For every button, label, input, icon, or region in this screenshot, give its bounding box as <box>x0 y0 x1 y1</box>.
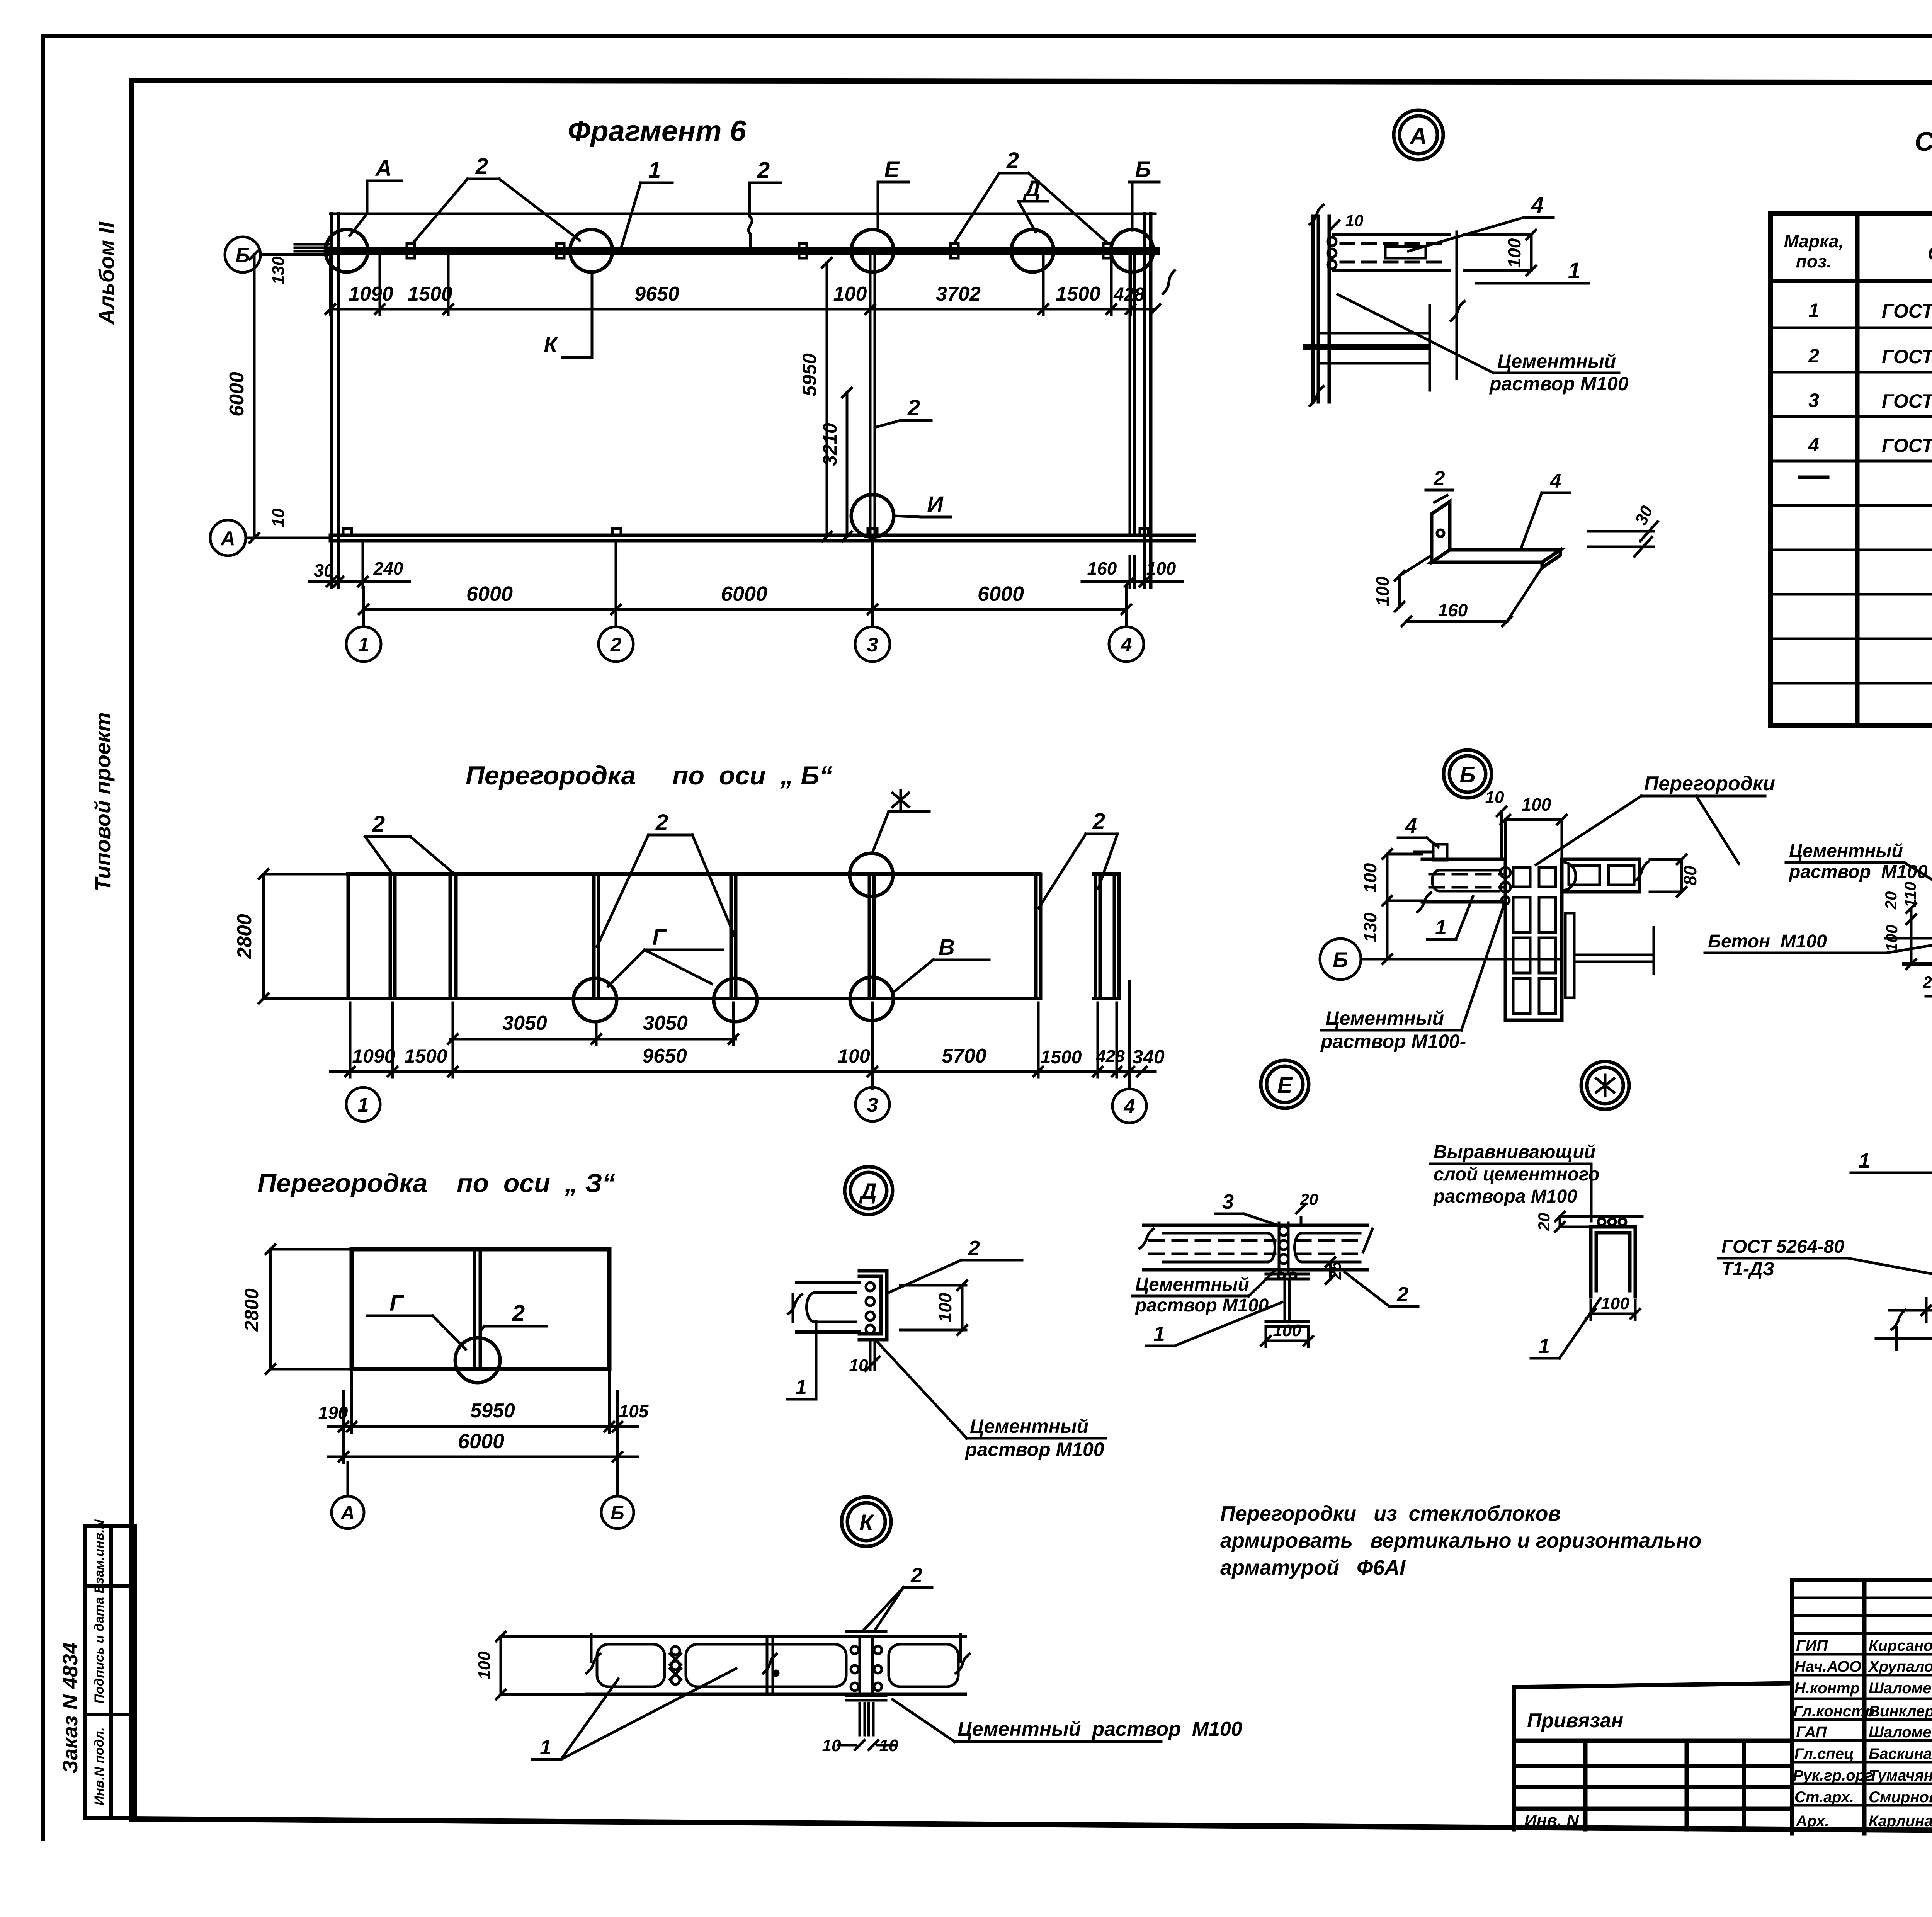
node B title circle <box>1444 750 1492 798</box>
plan right end wall <box>1145 214 1151 587</box>
svg-text:Бетон М100: Бетон М100 <box>1708 931 1827 952</box>
svg-text:25: 25 <box>1326 1261 1344 1280</box>
svg-text:Е: Е <box>884 157 900 182</box>
node K panel break <box>763 1636 778 1694</box>
partition Z callout circle <box>455 1338 500 1383</box>
svg-text:Б: Б <box>611 1502 624 1524</box>
svg-text:100: 100 <box>1522 794 1551 815</box>
elevation band top line <box>348 872 1119 876</box>
plan axis circle 1 <box>346 627 381 662</box>
node E T-joint mortar <box>1279 1223 1288 1272</box>
svg-text:армировать вертикально и гор: армировать вертикально и горизонтально <box>1220 1529 1701 1552</box>
node B left partition dashes <box>1430 874 1503 887</box>
node K I-beam mortar <box>851 1646 882 1691</box>
svg-text:20: 20 <box>1535 1213 1553 1232</box>
svg-text:арматурой Ф6АI: арматурой Ф6АI <box>1220 1556 1406 1579</box>
plan axis А circle <box>210 520 330 556</box>
svg-text:1: 1 <box>648 158 661 183</box>
node E cell dashes <box>1150 1240 1364 1254</box>
svg-text:1500: 1500 <box>404 1045 447 1067</box>
svg-text:10: 10 <box>1485 788 1504 807</box>
svg-text:2800: 2800 <box>241 1288 262 1332</box>
node E dim 100 under beam <box>1261 1329 1313 1347</box>
svg-text:Марка,: Марка, <box>1784 231 1844 251</box>
elevation axis circle 1 <box>346 1087 380 1121</box>
node D channel <box>859 1271 887 1340</box>
svg-text:6000: 6000 <box>721 582 767 606</box>
signature table grid <box>1792 1580 1932 1834</box>
elevation callout circle Г second <box>714 978 757 1022</box>
node I dim lines below <box>1876 1298 1932 1350</box>
svg-text:Е: Е <box>1277 1073 1293 1098</box>
svg-text:К: К <box>859 1510 874 1535</box>
svg-text:2: 2 <box>910 1564 922 1587</box>
node K I-beam joint <box>846 1631 886 1700</box>
svg-text:Цементный: Цементный <box>1789 841 1903 861</box>
plan vertical dim 3210 <box>842 388 852 541</box>
node D break mark <box>788 1294 802 1322</box>
svg-text:Шаломеев: Шаломеев <box>1869 1724 1932 1741</box>
privyazan table <box>1514 1683 1792 1829</box>
spec table header bottom line <box>1770 279 1932 283</box>
elevation callout circle Г first <box>573 978 617 1022</box>
svg-text:Привязан: Привязан <box>1527 1709 1623 1732</box>
svg-text:1090: 1090 <box>349 283 393 305</box>
svg-text:1: 1 <box>795 1376 807 1399</box>
plan vertical dim 5950 <box>822 258 832 541</box>
svg-text:2: 2 <box>757 158 770 183</box>
svg-text:Смирнова: Смирнова <box>1869 1789 1932 1806</box>
svg-text:К: К <box>544 332 559 357</box>
svg-text:Цементный раствор М100: Цементный раствор М100 <box>957 1718 1242 1740</box>
svg-text:2: 2 <box>655 810 668 835</box>
partition Z axis А circle <box>332 1463 364 1529</box>
svg-text:4: 4 <box>1121 634 1132 656</box>
svg-text:10: 10 <box>269 508 288 527</box>
plan node И callout circle <box>851 495 894 537</box>
svg-text:160: 160 <box>1087 558 1117 578</box>
elevation callout circle Ж top <box>850 853 893 896</box>
svg-text:раствор М100: раствор М100 <box>964 1439 1104 1460</box>
svg-text:9650: 9650 <box>634 283 679 305</box>
svg-text:ГАП: ГАП <box>1796 1724 1827 1741</box>
svg-text:1: 1 <box>358 634 369 656</box>
plan partition wall along axis Б <box>330 247 1155 255</box>
svg-text:100: 100 <box>838 1045 870 1067</box>
elevation dim row 2 <box>330 981 1155 1089</box>
svg-text:Инв. N: Инв. N <box>1524 1811 1579 1830</box>
node E cells <box>1163 1233 1360 1262</box>
node A title circle <box>1394 110 1443 160</box>
node E partition band <box>1144 1225 1367 1270</box>
svg-text:А: А <box>1409 123 1427 149</box>
svg-text:100: 100 <box>1504 238 1524 268</box>
svg-text:9650: 9650 <box>642 1045 687 1067</box>
node D partition cell <box>807 1293 856 1322</box>
svg-text:1: 1 <box>358 1094 369 1116</box>
svg-text:Винклер: Винклер <box>1869 1703 1932 1720</box>
node A wall verticals <box>1313 216 1329 402</box>
svg-text:3210: 3210 <box>819 423 841 466</box>
node A anchor plate <box>1385 247 1426 258</box>
node ZH channel section <box>1591 1227 1635 1297</box>
node B right partition channel bracket <box>1562 862 1576 891</box>
spec table row lines <box>1770 328 1932 683</box>
node E mortar under joint <box>1278 1273 1296 1279</box>
node B cut mark right <box>1635 859 1648 892</box>
svg-text:240: 240 <box>373 558 403 578</box>
partition Z dim 5950 row <box>328 1369 638 1432</box>
svg-text:Цементный: Цементный <box>1325 1007 1444 1029</box>
partition Z vertical dim 2800 <box>266 1245 352 1374</box>
svg-text:100: 100 <box>935 1293 955 1322</box>
svg-text:3702: 3702 <box>936 283 981 305</box>
svg-text:130: 130 <box>269 256 288 285</box>
svg-text:раствор М100: раствор М100 <box>1489 373 1629 395</box>
node K title circle <box>842 1497 891 1546</box>
svg-text:10: 10 <box>1345 211 1364 230</box>
plan axis circle 4 <box>1109 627 1144 662</box>
node A lower floor lines <box>1318 305 1430 390</box>
node A wall break marks <box>1310 205 1323 406</box>
svg-text:Цементный: Цементный <box>970 1415 1088 1437</box>
plan axis circle 3 <box>855 627 890 662</box>
node B dim 80 right <box>1650 855 1686 896</box>
elevation panel joints <box>348 874 1119 998</box>
svg-text:3050: 3050 <box>643 1012 688 1034</box>
svg-text:1500: 1500 <box>1056 283 1100 305</box>
node K cell 1 <box>597 1644 665 1687</box>
svg-text:3: 3 <box>1222 1190 1234 1213</box>
node B right partition voids <box>1569 866 1634 885</box>
plan axis circle 2 <box>599 627 633 662</box>
svg-text:А: А <box>220 527 235 550</box>
node A angle isometric horizontal leg <box>1432 550 1560 568</box>
svg-text:1: 1 <box>1859 1149 1870 1172</box>
svg-text:4: 4 <box>1405 814 1417 837</box>
elevation band extension to dim <box>264 874 348 998</box>
node B vertical glass block partition <box>1505 859 1562 1020</box>
plan interior partition on axis 3 <box>870 253 875 536</box>
plan anchor marks on wall А <box>343 529 1148 536</box>
svg-text:раствора М100: раствора М100 <box>1433 1186 1577 1207</box>
elevation axis circle 4 <box>1112 1089 1146 1123</box>
svg-text:100: 100 <box>1273 1321 1301 1340</box>
node E dim 25 <box>1326 1257 1335 1284</box>
elevation label Ж asterisk <box>872 790 929 852</box>
svg-text:1: 1 <box>1153 1322 1165 1345</box>
svg-text:Хрупало: Хрупало <box>1868 1658 1932 1675</box>
svg-text:Фрагмент 6: Фрагмент 6 <box>568 115 747 148</box>
node B mortar joint <box>1500 867 1510 904</box>
plan wall anchors on axis Б <box>407 243 1111 258</box>
svg-text:ГОСТ 8240-72*: ГОСТ 8240-72* <box>1882 346 1932 367</box>
svg-text:3: 3 <box>867 634 878 656</box>
node K cell 3 <box>889 1644 958 1687</box>
partition Z outline <box>352 1249 609 1369</box>
node ZH asterisk <box>1596 1075 1614 1096</box>
spec table outer border <box>1770 213 1932 726</box>
node A angle dim 100 <box>1395 556 1430 611</box>
svg-text:428: 428 <box>1096 1047 1125 1066</box>
svg-text:4: 4 <box>1124 1095 1135 1118</box>
plan break mark right <box>1163 270 1175 294</box>
svg-text:2: 2 <box>372 811 385 837</box>
svg-text:В: В <box>939 935 955 960</box>
node ZH mortar layer on top <box>1584 1216 1642 1225</box>
node K band end breaks <box>587 1635 969 1673</box>
node A angle dim 160 <box>1402 568 1542 626</box>
partition Z axis Б circle <box>601 1463 634 1529</box>
svg-text:130: 130 <box>1360 912 1380 942</box>
svg-text:ГОСТ 9272-81*: ГОСТ 9272-81* <box>1882 300 1932 322</box>
plan main dimension line 6000x3 <box>359 538 1131 627</box>
svg-text:100: 100 <box>1146 558 1176 578</box>
svg-text:Шаломеев: Шаломеев <box>1869 1680 1932 1697</box>
svg-text:А: А <box>375 156 392 181</box>
svg-text:428: 428 <box>1113 284 1145 305</box>
svg-text:Б: Б <box>1333 947 1348 972</box>
node A angle isometric vertical leg <box>1432 502 1450 562</box>
node E I-beam below <box>1266 1274 1308 1327</box>
node B dim 100 top <box>1501 815 1566 859</box>
svg-text:2: 2 <box>1434 467 1445 490</box>
svg-text:ГОСТ 8239-72*: ГОСТ 8239-72* <box>1882 390 1932 412</box>
node K band <box>587 1636 965 1694</box>
svg-text:2: 2 <box>512 1301 525 1326</box>
svg-text:1090: 1090 <box>352 1045 395 1067</box>
left stamp boxes column <box>85 1526 135 1818</box>
svg-text:Перегородки из стеклоблоков: Перегородки из стеклоблоков <box>1220 1502 1561 1525</box>
svg-text:2: 2 <box>1006 148 1019 173</box>
svg-text:Альбом II: Альбом II <box>94 221 119 325</box>
spec table row 5 dashes <box>1800 477 1932 479</box>
svg-text:Перегородка по оси „ З“: Перегородка по оси „ З“ <box>257 1169 615 1198</box>
svg-text:2: 2 <box>475 154 488 179</box>
node B dim 100/130 left <box>1383 849 1422 964</box>
node B right partition section <box>1562 859 1639 892</box>
svg-text:6000: 6000 <box>226 372 248 417</box>
node D mortar in channel <box>866 1283 874 1334</box>
svg-text:Т1-ДЗ: Т1-ДЗ <box>1721 1259 1775 1279</box>
svg-text:Г: Г <box>389 1291 404 1316</box>
svg-text:Подпись и дата: Подпись и дата <box>92 1597 107 1704</box>
svg-text:Ст.арх.: Ст.арх. <box>1794 1789 1854 1806</box>
svg-text:3: 3 <box>867 1094 878 1116</box>
svg-text:100: 100 <box>1601 1294 1629 1313</box>
plan dimension row under wall Б <box>326 255 1160 315</box>
svg-text:100: 100 <box>1360 863 1380 893</box>
svg-text:Тумачян: Тумачян <box>1869 1767 1932 1784</box>
svg-text:Д: Д <box>1022 176 1041 201</box>
svg-text:3: 3 <box>1808 390 1819 411</box>
svg-text:Б: Б <box>1135 157 1151 182</box>
node ZH title circle <box>1581 1061 1629 1109</box>
node B axis circle Б <box>1320 939 1562 980</box>
plan left end wall <box>332 214 338 587</box>
node A dim 100 <box>1464 230 1536 275</box>
svg-text:Н.контр: Н.контр <box>1794 1680 1860 1697</box>
plan vertical dim 6000 <box>250 250 259 543</box>
svg-text:80: 80 <box>1680 866 1700 886</box>
svg-text:Взам.инв.N: Взам.инв.N <box>92 1519 107 1594</box>
svg-text:Баскина: Баскина <box>1869 1745 1932 1762</box>
svg-text:2: 2 <box>968 1237 980 1260</box>
svg-text:Нач.АОО: Нач.АОО <box>1794 1658 1861 1675</box>
svg-text:поз.: поз. <box>1796 251 1832 271</box>
svg-text:Рук.гр.орг: Рук.гр.орг <box>1793 1767 1873 1784</box>
svg-text:Гл.констр: Гл.констр <box>1793 1703 1874 1720</box>
svg-text:100: 100 <box>833 283 867 305</box>
partition Z joint <box>474 1249 480 1369</box>
svg-text:4: 4 <box>1531 192 1544 218</box>
node ZH dim 20 <box>1555 1212 1588 1232</box>
plan axis Б circle <box>225 237 330 272</box>
node D title circle <box>845 1167 893 1214</box>
plan upper thin line <box>330 213 1155 215</box>
svg-text:Заказ N 4834: Заказ N 4834 <box>59 1642 82 1773</box>
svg-text:Арх.: Арх. <box>1796 1813 1829 1830</box>
node A mortar joint <box>1328 237 1336 269</box>
svg-text:Обозначение: Обозначение <box>1928 243 1932 264</box>
svg-text:190: 190 <box>318 1403 348 1423</box>
node B plinth bar <box>1565 913 1574 998</box>
svg-text:Перегородки: Перегородки <box>1644 772 1775 795</box>
svg-text:105: 105 <box>619 1401 649 1421</box>
svg-text:Д: Д <box>859 1179 877 1204</box>
svg-text:5950: 5950 <box>799 353 820 396</box>
svg-text:5950: 5950 <box>470 1400 515 1422</box>
svg-text:1: 1 <box>540 1736 551 1759</box>
node ZH dim 100 <box>1586 1300 1640 1320</box>
partition Z dim 6000 row <box>328 1432 638 1463</box>
svg-text:Инв.N подл.: Инв.N подл. <box>92 1727 107 1805</box>
node B left partition section <box>1422 859 1505 902</box>
svg-text:30: 30 <box>314 560 334 580</box>
svg-text:ГОСТ 19903-74*: ГОСТ 19903-74* <box>1882 435 1932 456</box>
svg-text:ГОСТ 5264-80: ГОСТ 5264-80 <box>1721 1237 1844 1257</box>
svg-text:2800: 2800 <box>233 914 256 959</box>
elevation band bottom line <box>348 997 1119 1000</box>
svg-text:Перегородка по оси „ Б“: Перегородка по оси „ Б“ <box>466 761 832 790</box>
svg-text:Цементный: Цементный <box>1497 350 1616 372</box>
svg-text:Карлина: Карлина <box>1869 1813 1932 1830</box>
elevation vertical dim 2800 <box>259 869 268 1003</box>
node A cut line vertical <box>1451 232 1464 379</box>
node B block voids <box>1513 867 1556 1014</box>
svg-text:6000: 6000 <box>466 582 513 606</box>
svg-text:20: 20 <box>1882 891 1900 910</box>
node A hatched belt <box>1306 344 1428 350</box>
svg-text:4: 4 <box>1550 470 1561 492</box>
node B left partition cell <box>1432 870 1500 891</box>
svg-text:5700: 5700 <box>942 1045 986 1067</box>
plan wall along axis А <box>330 535 1194 541</box>
node V bottom dims 20 100 80 <box>1926 966 1932 1002</box>
svg-text:1: 1 <box>1538 1335 1550 1358</box>
elevation axis circle 3 <box>855 1087 889 1121</box>
svg-text:Выравнивающий: Выравнивающий <box>1434 1142 1595 1162</box>
svg-text:1500: 1500 <box>1041 1047 1082 1068</box>
node K dim 100 left <box>496 1632 584 1699</box>
svg-text:100: 100 <box>475 1651 494 1680</box>
svg-text:Б: Б <box>1459 762 1475 788</box>
node V ground line <box>1904 962 1932 966</box>
svg-text:2: 2 <box>1092 809 1105 834</box>
node A partition section <box>1334 235 1449 270</box>
svg-text:Кирсанов: Кирсанов <box>1869 1637 1932 1654</box>
svg-text:1: 1 <box>1568 258 1580 283</box>
node D dim 100 <box>900 1281 967 1335</box>
node B I-beam lines <box>1574 927 1654 974</box>
node D partition section <box>797 1283 859 1332</box>
svg-text:1500: 1500 <box>408 283 452 305</box>
svg-text:340: 340 <box>1132 1046 1165 1068</box>
svg-text:Типовой проект: Типовой проект <box>90 712 115 891</box>
svg-text:100: 100 <box>1372 576 1393 606</box>
node E break marks <box>1140 1229 1372 1252</box>
svg-text:3050: 3050 <box>502 1012 547 1034</box>
svg-text:слой цементного: слой цементного <box>1434 1164 1600 1185</box>
plan right partition near axis 4 <box>1130 253 1134 535</box>
plan hatch marks left of wall <box>295 244 329 251</box>
svg-text:И: И <box>927 492 944 517</box>
elevation dim row 3050/3050 <box>448 1003 738 1045</box>
node A angle hole <box>1437 530 1444 537</box>
svg-text:1: 1 <box>1808 299 1819 321</box>
node E title circle <box>1261 1060 1309 1108</box>
node A angle dim 30 <box>1588 522 1658 556</box>
svg-text:Б: Б <box>236 244 250 267</box>
svg-text:160: 160 <box>1438 600 1468 620</box>
spec table column lines <box>1857 213 1932 726</box>
svg-text:2: 2 <box>1808 345 1819 367</box>
plan node callout circles on wall Б <box>325 230 1153 272</box>
svg-text:2: 2 <box>1396 1283 1408 1306</box>
svg-text:ГИП: ГИП <box>1796 1637 1828 1654</box>
svg-text:1: 1 <box>1435 916 1447 939</box>
svg-text:4: 4 <box>1808 434 1819 456</box>
svg-text:А: А <box>340 1502 355 1524</box>
node B anchor plate <box>1414 844 1447 860</box>
svg-text:2: 2 <box>610 634 622 656</box>
svg-text:6000: 6000 <box>978 582 1024 606</box>
svg-text:Гл.спец: Гл.спец <box>1794 1745 1854 1762</box>
svg-text:6000: 6000 <box>458 1430 504 1453</box>
svg-text:раствор М100-: раствор М100- <box>1320 1031 1466 1052</box>
svg-text:Г: Г <box>652 925 667 950</box>
svg-text:раствор М100: раствор М100 <box>1134 1295 1269 1316</box>
svg-text:Цементный: Цементный <box>1135 1274 1249 1295</box>
signature table names <box>1793 1637 1932 1830</box>
node K cell 2 <box>686 1644 846 1687</box>
node K X joint with mortar <box>670 1647 681 1684</box>
elevation callout circle В <box>850 977 893 1021</box>
svg-text:20: 20 <box>1923 973 1932 991</box>
svg-text:Спецификация сборных: Спецификация сборных <box>1915 126 1932 156</box>
svg-text:2: 2 <box>907 395 920 420</box>
node A partition dashed centerlines <box>1341 243 1445 262</box>
node B break mark left <box>1417 893 1431 912</box>
